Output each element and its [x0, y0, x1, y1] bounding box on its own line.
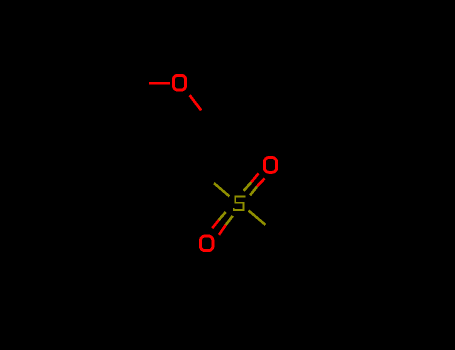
bond C3-S1 (carbon to sulfur, olive half) — [214, 183, 230, 196]
double bond S1=O3 line b (red half) — [219, 225, 226, 235]
double bond S1=O2 line b (red half) — [257, 178, 265, 186]
double bond S1=O2 line b (olive half) — [250, 187, 257, 196]
double bond S1=O3 line a (olive half) — [219, 212, 226, 220]
atom S1 (sulfonyl sulfur) — [234, 196, 245, 210]
double bond S1=O3 line a (red half) — [212, 220, 219, 228]
double bond S1=O2 line a (red half) — [251, 173, 258, 182]
bond S1-C4 (sulfur to phenyl carbon, olive half) — [249, 211, 266, 225]
atom O1 (ether oxygen) — [173, 75, 185, 90]
atom O2 (sulfonyl oxygen, upper right) — [264, 158, 276, 173]
double bond S1=O3 line b (olive half) — [226, 216, 233, 225]
double bond S1=O2 line a (olive half) — [244, 182, 252, 191]
bond O1-C2 (ether oxygen to CH2, red half) — [190, 95, 202, 110]
bond C-O1 (methyl to ether oxygen, red half) — [149, 82, 170, 85]
atom O3 (sulfonyl oxygen, lower left) — [201, 236, 213, 251]
